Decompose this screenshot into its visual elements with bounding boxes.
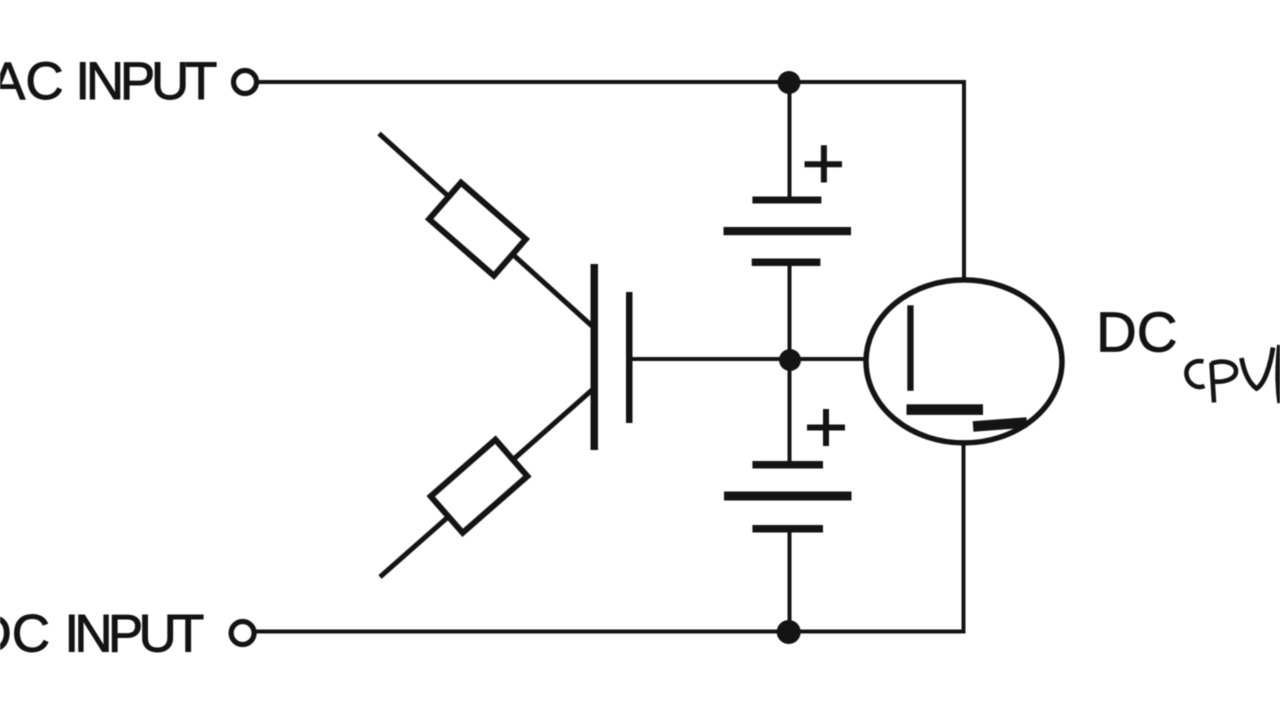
- meter M1 body: [866, 280, 1062, 443]
- label glyph V: [1242, 348, 1274, 389]
- node junction middle: [779, 349, 801, 371]
- terminal AC input: [234, 71, 257, 94]
- wire right vertical upper: [962, 80, 966, 279]
- wire lower diagonal lead: [380, 390, 592, 577]
- wire top horizontal: [258, 80, 966, 84]
- resistor R2: [431, 440, 528, 533]
- label glyph P: [1212, 362, 1237, 403]
- node junction bottom: [777, 620, 801, 644]
- label AC INPUT: [0, 52, 217, 111]
- svg-text:INPUT: INPUT: [64, 605, 204, 664]
- svg-text:INPUT: INPUT: [75, 52, 217, 111]
- transistor Q1 base bar: [591, 264, 599, 450]
- transistor Q1 gate bar: [626, 292, 633, 423]
- wire upper diagonal lead: [379, 134, 592, 327]
- wire cap branch upper: [788, 82, 792, 199]
- meter M1 inner vertical bar: [907, 305, 913, 391]
- capacitor C1: [724, 197, 852, 267]
- label glyph partial stem: [1278, 345, 1280, 403]
- wire bottom horizontal: [255, 630, 966, 634]
- svg-text:DC: DC: [1096, 300, 1178, 363]
- terminal DC input: [231, 622, 254, 645]
- capacitor C1 plus sign: [805, 145, 843, 182]
- wire cap branch lower: [788, 358, 792, 463]
- capacitor C2 plus sign: [807, 409, 845, 446]
- wire between capacitors upper: [788, 265, 792, 362]
- node junction top: [778, 71, 801, 94]
- resistor R1: [429, 183, 526, 276]
- wire right vertical lower: [962, 445, 966, 634]
- svg-text:DC: DC: [0, 605, 50, 664]
- meter M1 inner horizontal bar: [907, 404, 984, 415]
- svg-text:AC: AC: [0, 52, 64, 111]
- wire below C2: [788, 531, 792, 633]
- capacitor C2: [724, 461, 852, 533]
- meter M1 inner offset bar: [973, 417, 1028, 432]
- wire middle horizontal to meter: [632, 357, 866, 361]
- label DC INPUT: [0, 605, 204, 664]
- label glyph c: [1186, 361, 1204, 387]
